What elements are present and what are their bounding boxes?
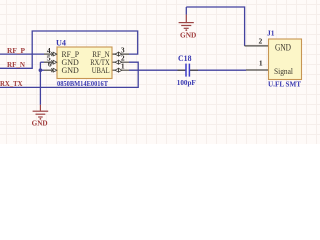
svg-text:J1: J1	[267, 29, 275, 38]
svg-text:GND: GND	[180, 31, 197, 40]
svg-text:GND: GND	[275, 43, 291, 53]
svg-text:U.FL SMT: U.FL SMT	[268, 81, 301, 89]
svg-text:GND: GND	[62, 66, 80, 75]
svg-text:UBAL: UBAL	[92, 66, 110, 75]
svg-text:6: 6	[48, 60, 52, 69]
svg-text:Signal: Signal	[274, 66, 294, 76]
svg-text:RF_P: RF_P	[7, 47, 26, 55]
svg-text:U4: U4	[56, 39, 66, 48]
svg-text:GND: GND	[32, 119, 49, 128]
svg-text:1: 1	[121, 61, 125, 70]
svg-text:RX_TX: RX_TX	[0, 80, 23, 88]
svg-text:0850BM14E0016T: 0850BM14E0016T	[57, 79, 108, 88]
svg-text:C18: C18	[178, 54, 192, 63]
svg-text:1: 1	[259, 59, 263, 68]
svg-text:RF_N: RF_N	[7, 61, 25, 69]
svg-text:100pF: 100pF	[177, 78, 196, 87]
svg-text:2: 2	[259, 36, 263, 45]
